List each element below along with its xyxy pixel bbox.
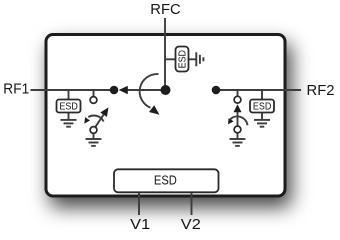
svg-text:ESD: ESD (253, 101, 272, 113)
svg-text:ESD: ESD (177, 50, 189, 69)
svg-text:ESD: ESD (59, 101, 78, 113)
svg-text:RF2: RF2 (307, 83, 335, 99)
svg-text:V2: V2 (181, 217, 201, 233)
svg-text:RFC: RFC (150, 2, 180, 18)
svg-text:V1: V1 (130, 217, 150, 233)
svg-text:RF1: RF1 (3, 81, 29, 97)
svg-text:ESD: ESD (154, 173, 177, 188)
